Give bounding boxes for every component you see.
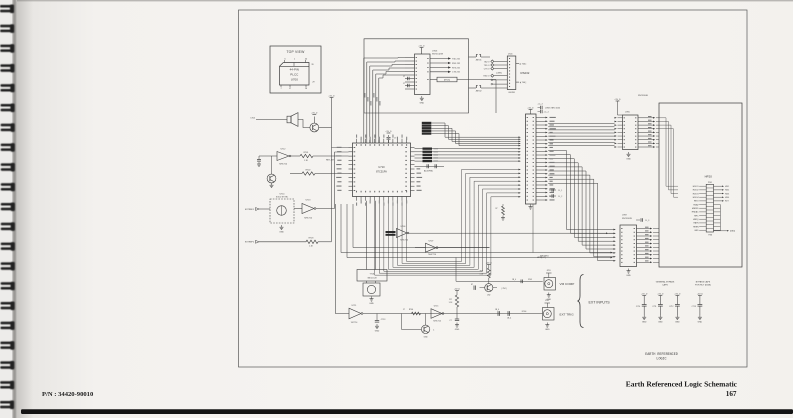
jumper JM702 xyxy=(475,85,482,92)
resistor R703 xyxy=(259,238,332,248)
svg-text:HNDAC: HNDAC xyxy=(692,211,699,214)
svg-text:( 2N2 ): ( 2N2 ) xyxy=(502,288,508,290)
svg-text:74HCT14: 74HCT14 xyxy=(433,321,441,323)
svg-text:C7: C7 xyxy=(403,76,405,78)
resistor R706 xyxy=(403,309,421,315)
wire bus ADDR hi U710-U708 xyxy=(422,122,521,147)
wire HPIB internal routing xyxy=(659,118,700,282)
diode D702 xyxy=(495,309,500,316)
connector J705 HPIB xyxy=(706,182,713,236)
svg-text:CL_2: CL_2 xyxy=(558,196,562,198)
wire control bus staircase xyxy=(375,169,521,276)
svg-text:74HCT14: 74HCT14 xyxy=(400,240,408,242)
op-amp U713 buffer xyxy=(294,200,316,220)
wire serial bus U703 to U710 xyxy=(364,58,405,143)
net label boxes xyxy=(386,231,396,236)
wire U708 right pins xyxy=(536,117,548,201)
net label HPIB xyxy=(705,175,713,179)
wire osc input xyxy=(259,155,277,157)
svg-text:ADJ/VRBL: ADJ/VRBL xyxy=(424,170,433,173)
resistor R702 xyxy=(290,169,349,175)
net label D705 xyxy=(512,279,532,283)
svg-text:D7: D7 xyxy=(471,284,473,286)
net label RS232 xyxy=(521,71,530,75)
svg-text:HSRQ: HSRQ xyxy=(693,219,699,221)
wire U710 right pins xyxy=(411,148,415,191)
svg-text:C710: C710 xyxy=(636,306,640,308)
IC U700 44-pin PLCC top view xyxy=(270,46,321,93)
speaker LS701 xyxy=(287,113,298,127)
svg-text:HDIO3: HDIO3 xyxy=(693,193,699,195)
U710 pin numbers xyxy=(354,144,408,192)
svg-text:HDIO1: HDIO1 xyxy=(693,186,699,188)
svg-text:5MCLK-08: 5MCLK-08 xyxy=(367,277,376,279)
svg-text:GND: GND xyxy=(545,329,550,331)
svg-text:GND: GND xyxy=(375,330,380,332)
wire U709 right pins xyxy=(637,228,660,263)
svg-text:CL_1: CL_1 xyxy=(558,190,562,192)
svg-text:HNRFD: HNRFD xyxy=(692,208,699,210)
resistor R709 xyxy=(480,263,493,282)
svg-text:SN75160B: SN75160B xyxy=(638,95,648,97)
svg-text:SN75162B: SN75162B xyxy=(622,218,632,220)
svg-text:44-PIN: 44-PIN xyxy=(290,68,299,72)
capacitor C711 C712 row xyxy=(415,164,445,172)
net label HBT_INT xyxy=(326,159,335,161)
svg-text:BYPASS CAPS: BYPASS CAPS xyxy=(696,280,711,283)
jumper CL702 xyxy=(549,194,562,198)
U708 net name labels xyxy=(550,117,556,201)
power +5V node A xyxy=(328,96,335,242)
svg-text:74HCT14: 74HCT14 xyxy=(304,218,312,220)
svg-text:U708 74HCT245: U708 74HCT245 xyxy=(545,108,561,110)
svg-text:Earth Referenced Logic Schemat: Earth Referenced Logic Schematic xyxy=(626,380,738,389)
wire RS232 section outline xyxy=(364,39,469,113)
wire speaker to Q701 xyxy=(298,120,310,128)
svg-text:RXD O: RXD O xyxy=(484,76,491,78)
wire connector right stubs xyxy=(516,62,527,84)
svg-text:R7: R7 xyxy=(449,299,451,301)
svg-text:U710: U710 xyxy=(378,165,385,169)
svg-text:D704: D704 xyxy=(522,311,527,313)
wire VM COMP line xyxy=(456,258,543,282)
svg-text:GND: GND xyxy=(455,329,460,331)
svg-text:C7: C7 xyxy=(403,83,405,85)
transistor Q701 xyxy=(310,113,319,132)
power +5V_D U703 xyxy=(418,46,425,55)
wire U713 out xyxy=(316,208,335,210)
wire Q701 out xyxy=(319,127,332,129)
wire jumper to connector xyxy=(481,57,507,88)
jumper JM701 xyxy=(475,54,482,61)
wire U705 pins xyxy=(615,117,660,148)
svg-text:74HCT14: 74HCT14 xyxy=(428,254,436,256)
svg-text:D705: D705 xyxy=(528,279,532,281)
svg-text:GND: GND xyxy=(694,230,699,232)
wire U710 left links xyxy=(332,148,349,153)
svg-text:JM702: JM702 xyxy=(475,91,482,93)
wire U703 TX/RX nets xyxy=(430,57,461,73)
svg-text:C712: C712 xyxy=(669,306,673,308)
op-amp U715 buffer xyxy=(431,306,444,323)
connector J701 VM COMP xyxy=(544,270,556,290)
ground U708 xyxy=(529,205,533,210)
wire SPDWN2 xyxy=(347,204,613,258)
svg-text:LOGIC: LOGIC xyxy=(656,358,666,362)
jumper CL701 xyxy=(549,188,562,192)
op-amp U707 buffer xyxy=(415,241,438,257)
svg-text:GND: GND xyxy=(626,275,631,277)
wire RS232 connector pins xyxy=(484,60,508,85)
svg-text:GND: GND xyxy=(626,158,631,160)
svg-text:HEOI: HEOI xyxy=(694,201,699,203)
op-amp U706 buffer xyxy=(397,226,409,242)
svg-text:C7: C7 xyxy=(403,309,405,311)
net label bypass caps xyxy=(656,280,711,286)
svg-text:EXTREF1: EXTREF1 xyxy=(245,209,255,211)
svg-text:U715: U715 xyxy=(434,306,439,308)
svg-text:[GND]: [GND] xyxy=(730,231,735,233)
U705 U709 pin numbers xyxy=(621,117,636,262)
capacitor C715 xyxy=(449,314,459,331)
svg-text:EARTH REFERENCED: EARTH REFERENCED xyxy=(645,353,678,357)
svg-text:1N_4: 1N_4 xyxy=(507,318,511,320)
svg-text:74HCT14: 74HCT14 xyxy=(279,164,287,166)
ground U705 xyxy=(626,152,631,160)
net label D704 xyxy=(522,311,527,313)
svg-text:GND: GND xyxy=(642,321,647,323)
connector J704 RS232 xyxy=(507,54,516,94)
svg-text:167: 167 xyxy=(726,390,737,398)
resistor R708 pullup xyxy=(495,204,505,220)
svg-text:GND: GND xyxy=(547,299,552,301)
op-amp U711 buffer xyxy=(349,305,363,324)
svg-text:U700: U700 xyxy=(291,78,299,82)
svg-text:HDI2: HDI2 xyxy=(725,190,729,192)
svg-text:GND: GND xyxy=(279,231,284,233)
svg-text:R706: R706 xyxy=(409,309,413,311)
bus name labels xyxy=(434,148,439,162)
svg-text:+CL_4: +CL_4 xyxy=(543,111,548,113)
wire U708 to U705 bus xyxy=(548,124,614,146)
transistor Q702 xyxy=(267,156,276,188)
capacitor C713 xyxy=(375,314,385,333)
wire EXT TRIG line xyxy=(363,313,543,315)
U705 U709 net labels xyxy=(645,116,652,261)
svg-text:C711: C711 xyxy=(652,306,656,308)
svg-text:HDIO4: HDIO4 xyxy=(693,197,699,199)
net label HPD bus xyxy=(537,257,546,259)
resistor R701 xyxy=(291,152,349,162)
U708 pin numbers xyxy=(527,117,534,200)
svg-text:GND: GND xyxy=(420,102,425,104)
diode D701 xyxy=(471,284,485,290)
wire RS232 to J704 xyxy=(469,57,477,88)
crystal Y701 xyxy=(357,270,387,282)
svg-text:EXTREF2: EXTREF2 xyxy=(245,242,255,244)
svg-text:U703: U703 xyxy=(432,51,438,53)
net labels HPIB pins xyxy=(692,186,706,232)
svg-text:CTS O: CTS O xyxy=(484,69,490,71)
svg-text:C713: C713 xyxy=(381,319,386,321)
HPIB section box xyxy=(659,103,742,267)
svg-text:▸[ 706 ]: ▸[ 706 ] xyxy=(520,62,527,65)
serial bus net names xyxy=(364,93,380,106)
resistor R704 xyxy=(449,289,461,314)
net label C705 xyxy=(250,117,287,119)
svg-text:1N_4: 1N_4 xyxy=(495,309,499,311)
svg-text:HDIO2: HDIO2 xyxy=(693,190,699,192)
svg-text:FOR HCT (8258): FOR HCT (8258) xyxy=(695,284,711,286)
wire U703 left pins xyxy=(405,58,415,90)
net label EXTREF2 xyxy=(245,240,259,243)
ground U703 xyxy=(420,96,425,104)
svg-text:C7: C7 xyxy=(449,320,451,322)
svg-text:HDI3: HDI3 xyxy=(725,193,729,195)
svg-text:TOP VIEW: TOP VIEW xyxy=(286,50,305,54)
svg-text:P1M: P1M xyxy=(708,235,712,237)
wire U706 out xyxy=(409,232,614,234)
capacitor C723 bypass xyxy=(692,294,704,324)
svg-text:(R705): (R705) xyxy=(444,80,450,82)
wire bus ADDR lo U710-U708 xyxy=(415,148,521,163)
svg-text:◂[ 706 ]: ◂[ 706 ] xyxy=(520,81,527,84)
net label EARTH REFERENCED LOGIC xyxy=(645,353,678,362)
svg-text:2N2: 2N2 xyxy=(487,294,490,296)
connector J702 EXT TRIG xyxy=(543,300,555,320)
svg-text:SN75C3238: SN75C3238 xyxy=(432,53,444,55)
brace EXT INPUTS xyxy=(578,275,584,328)
svg-text:87C51FA: 87C51FA xyxy=(376,170,387,174)
IC U705 HPIB transceiver xyxy=(614,95,648,150)
svg-text:HP20: HP20 xyxy=(705,175,713,179)
svg-text:CAPS: CAPS xyxy=(662,283,668,286)
svg-text:RS232: RS232 xyxy=(521,71,530,75)
svg-text:[ JM8 ]: [ JM8 ] xyxy=(496,73,502,75)
svg-text:HDAV: HDAV xyxy=(693,203,699,206)
capacitor C720 bypass xyxy=(636,294,648,324)
wire HPIB connector right stubs xyxy=(714,185,736,232)
svg-text:VM COMP: VM COMP xyxy=(560,282,575,286)
diode D703 xyxy=(507,311,511,319)
capacitor C710 xyxy=(385,131,396,143)
wire vertical bus B xyxy=(334,152,336,209)
resistor R705 pack xyxy=(430,77,496,113)
svg-text:EXT INPUTS: EXT INPUTS xyxy=(589,301,611,305)
svg-text:TXD 232: TXD 232 xyxy=(452,58,461,60)
svg-text:SOLID ST REL: SOLID ST REL xyxy=(276,197,288,199)
svg-text:GENERAL BYPASS: GENERAL BYPASS xyxy=(656,280,675,283)
wire U710 top pins xyxy=(357,139,407,143)
ground J702 xyxy=(545,323,550,331)
wire HPD down xyxy=(532,204,534,253)
capacitor C706 xyxy=(257,156,261,166)
svg-text:R7: R7 xyxy=(495,208,497,210)
svg-text:R09: R09 xyxy=(480,271,483,273)
net label EXT INPUTS xyxy=(589,301,611,305)
svg-text:GND: GND xyxy=(675,321,680,323)
capacitor C703 xyxy=(403,76,409,80)
wire bus to pin links xyxy=(364,58,405,79)
svg-text:C7: C7 xyxy=(394,138,396,140)
svg-text:GND: GND xyxy=(698,321,703,323)
ground J701 xyxy=(547,293,552,301)
capacitor C722 bypass xyxy=(669,294,681,324)
IC U710 microcontroller xyxy=(353,143,411,197)
opto relay U714 xyxy=(270,194,294,224)
wire net to R712 xyxy=(353,204,490,248)
schematic border frame xyxy=(239,10,748,367)
svg-text:HDI1: HDI1 xyxy=(725,186,729,188)
capacitor C704 xyxy=(403,83,409,87)
svg-text:RXD 232: RXD 232 xyxy=(452,63,461,65)
net label JM8 xyxy=(496,73,502,75)
net label VM COMP xyxy=(560,282,575,286)
wire to U711 xyxy=(336,204,350,314)
svg-text:SPDWN1: SPDWN1 xyxy=(540,255,549,257)
svg-text:Y701: Y701 xyxy=(370,273,376,275)
svg-text:J701: J701 xyxy=(546,270,550,272)
svg-text:RTS 232: RTS 232 xyxy=(452,67,461,69)
svg-text:PLCC: PLCC xyxy=(290,73,299,77)
svg-text:GND: GND xyxy=(658,321,663,323)
svg-text:HREN: HREN xyxy=(693,226,699,228)
wire HPIB data fan U708-U709 xyxy=(548,151,616,262)
U703 pin numbers xyxy=(416,57,429,89)
capacitor C721 bypass xyxy=(652,294,664,324)
ground U714 xyxy=(279,225,284,233)
svg-text:HATN: HATN xyxy=(693,222,699,225)
wire U710 bottom pins xyxy=(357,197,407,201)
jumper CL703 xyxy=(537,104,542,110)
svg-text:HBT_INT: HBT_INT xyxy=(326,159,335,161)
svg-text:J40708: J40708 xyxy=(508,92,515,94)
wire SPDWN1 xyxy=(341,204,613,253)
wire U710 left pins xyxy=(349,148,353,191)
svg-text:TXD O: TXD O xyxy=(484,65,490,67)
svg-text:CTS 232: CTS 232 xyxy=(452,72,461,74)
svg-text:862 O: 862 O xyxy=(484,61,490,63)
ground Y702 xyxy=(369,297,374,305)
svg-text:HIFC: HIFC xyxy=(694,215,699,217)
wire U707 out xyxy=(438,247,490,249)
oscillator module Y702 xyxy=(363,281,380,296)
svg-text:GND: GND xyxy=(369,303,374,305)
ground U709 xyxy=(626,269,631,277)
transistor Q704 xyxy=(485,281,507,296)
jumper CL704 xyxy=(538,110,549,114)
svg-text:P/N : 34420-90010: P/N : 34420-90010 xyxy=(42,391,94,398)
net label EXT TRIG xyxy=(560,312,575,316)
IC U708 bus buffer xyxy=(526,108,561,205)
svg-text:1N_4: 1N_4 xyxy=(512,279,516,281)
svg-text:P1M: P1M xyxy=(708,182,712,184)
net label EXTREF1 xyxy=(245,208,270,211)
IC U709 HPIB control transceiver xyxy=(620,215,649,267)
op-amp U703 RS232 driver xyxy=(415,51,444,95)
svg-text:74CT14: 74CT14 xyxy=(351,322,358,324)
svg-text:+CL_3: +CL_3 xyxy=(537,104,542,106)
svg-text:CL_3: CL_3 xyxy=(645,220,649,222)
op-amp U712 buffer xyxy=(277,149,291,166)
svg-text:GND: GND xyxy=(424,337,429,339)
svg-text:C713: C713 xyxy=(692,306,696,308)
U710 pin name labels xyxy=(336,135,422,206)
svg-text:JM701: JM701 xyxy=(475,60,482,62)
transistor Q705 xyxy=(401,314,435,339)
wire crystal links xyxy=(367,201,376,270)
svg-text:EXT TRIG: EXT TRIG xyxy=(560,312,575,316)
svg-text:HDI4: HDI4 xyxy=(725,197,729,199)
